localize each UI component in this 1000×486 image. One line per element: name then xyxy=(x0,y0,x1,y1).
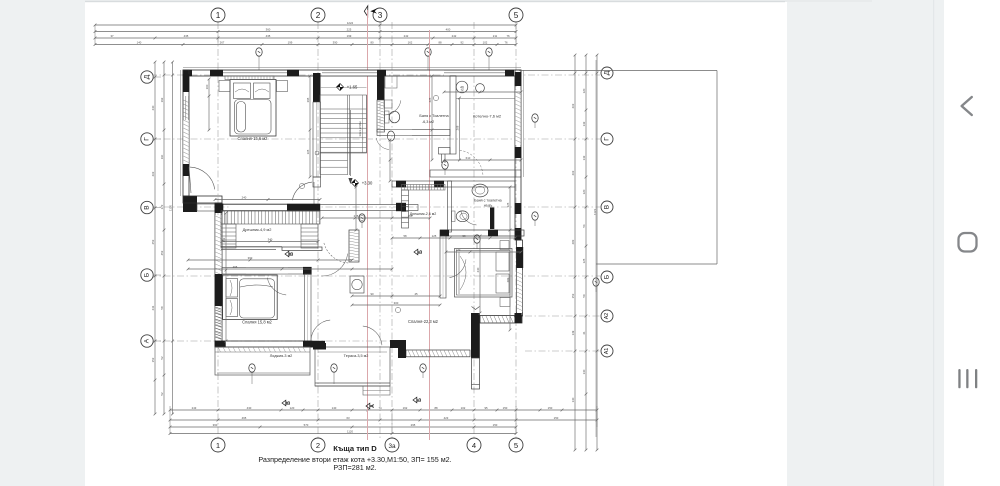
svg-text:А: А xyxy=(144,338,151,343)
svg-text:А: А xyxy=(370,404,376,408)
svg-text:435: 435 xyxy=(184,34,189,38)
svg-text:Спалня 15,8 м2: Спалня 15,8 м2 xyxy=(242,320,272,325)
svg-text:153: 153 xyxy=(571,293,575,298)
svg-text:А1: А1 xyxy=(604,348,610,355)
svg-text:Лоджия-3 м2: Лоджия-3 м2 xyxy=(270,354,293,358)
svg-text:143: 143 xyxy=(582,155,586,160)
svg-text:3а: 3а xyxy=(388,443,396,450)
svg-text:120: 120 xyxy=(582,88,586,93)
svg-text:150: 150 xyxy=(554,416,559,420)
svg-text:Д: Д xyxy=(144,74,151,79)
svg-text:Тераса-3,5 м2: Тераса-3,5 м2 xyxy=(344,354,369,358)
svg-text:162: 162 xyxy=(403,406,408,410)
svg-text:1120: 1120 xyxy=(168,205,172,211)
svg-text:1120: 1120 xyxy=(347,429,353,433)
svg-text:95: 95 xyxy=(484,406,488,410)
svg-text:Къща тип D: Къща тип D xyxy=(333,444,377,453)
svg-text:13х1,2/30м: 13х1,2/30м xyxy=(358,121,362,136)
svg-text:3: 3 xyxy=(378,11,383,20)
svg-text:430: 430 xyxy=(247,406,252,410)
svg-text:240: 240 xyxy=(242,195,247,199)
svg-text:72: 72 xyxy=(460,88,464,92)
svg-text:2: 2 xyxy=(316,11,321,20)
svg-text:130: 130 xyxy=(582,369,586,374)
svg-text:Г: Г xyxy=(144,137,151,141)
svg-text:211: 211 xyxy=(493,34,498,38)
svg-text:52: 52 xyxy=(160,356,164,360)
svg-text:125: 125 xyxy=(432,234,437,238)
svg-text:4: 4 xyxy=(472,441,476,450)
svg-text:105: 105 xyxy=(408,214,413,218)
svg-text:110: 110 xyxy=(160,154,164,159)
svg-text:Котелно-7,6 м2: Котелно-7,6 м2 xyxy=(473,114,502,119)
svg-text:45: 45 xyxy=(414,292,418,296)
svg-text:225: 225 xyxy=(428,97,432,102)
svg-text:268: 268 xyxy=(455,125,459,130)
svg-text:150: 150 xyxy=(493,423,498,427)
svg-text:283: 283 xyxy=(571,239,575,244)
svg-text:193: 193 xyxy=(160,97,164,102)
svg-text:+1.65: +1.65 xyxy=(347,85,358,90)
svg-text:172: 172 xyxy=(160,204,164,209)
svg-text:37: 37 xyxy=(110,34,114,38)
svg-text:Г: Г xyxy=(604,137,611,141)
svg-text:263: 263 xyxy=(571,170,575,175)
svg-text:140: 140 xyxy=(332,406,337,410)
svg-text:В: В xyxy=(604,204,611,209)
svg-text:59: 59 xyxy=(582,294,586,298)
svg-text:139: 139 xyxy=(571,330,575,335)
svg-text:88: 88 xyxy=(434,406,438,410)
svg-text:465: 465 xyxy=(242,416,247,420)
svg-text:В: В xyxy=(286,401,292,405)
svg-text:143: 143 xyxy=(582,121,586,126)
svg-text:1: 1 xyxy=(216,11,221,20)
svg-text:+3.30: +3.30 xyxy=(362,181,373,186)
svg-text:300: 300 xyxy=(394,301,399,305)
svg-text:150: 150 xyxy=(548,406,553,410)
svg-text:423: 423 xyxy=(444,416,449,420)
svg-text:Д: Д xyxy=(604,70,611,75)
svg-text:102: 102 xyxy=(461,406,466,410)
svg-text:5: 5 xyxy=(514,11,519,20)
svg-text:Дрешник-2,6 м2: Дрешник-2,6 м2 xyxy=(410,212,437,216)
svg-text:Б: Б xyxy=(144,273,151,277)
svg-text:100: 100 xyxy=(205,84,209,89)
svg-text:80: 80 xyxy=(370,40,374,44)
svg-text:610: 610 xyxy=(466,156,471,160)
svg-text:199: 199 xyxy=(347,34,352,38)
svg-text:263: 263 xyxy=(571,103,575,108)
svg-text:Б: Б xyxy=(418,250,424,254)
svg-text:170: 170 xyxy=(456,248,461,252)
svg-text:1224: 1224 xyxy=(347,21,354,25)
svg-text:Баня с тоалетна: Баня с тоалетна xyxy=(474,199,501,203)
svg-text:52: 52 xyxy=(160,392,164,396)
svg-text:88: 88 xyxy=(438,40,442,44)
svg-text:165: 165 xyxy=(306,149,310,154)
svg-text:130: 130 xyxy=(571,397,575,402)
svg-text:230: 230 xyxy=(476,267,480,272)
svg-text:253: 253 xyxy=(151,239,155,244)
svg-text:435: 435 xyxy=(266,34,271,38)
svg-text:Спалня-22,3 м2: Спалня-22,3 м2 xyxy=(408,319,439,324)
svg-text:267: 267 xyxy=(220,40,225,44)
svg-text:263: 263 xyxy=(151,171,155,176)
svg-text:76: 76 xyxy=(504,40,508,44)
svg-text:395: 395 xyxy=(306,97,310,102)
svg-text:360: 360 xyxy=(266,27,271,31)
svg-text:В: В xyxy=(289,252,295,256)
svg-text:390: 390 xyxy=(333,40,338,44)
svg-text:570: 570 xyxy=(304,423,309,427)
svg-text:340: 340 xyxy=(268,237,273,241)
svg-text:2: 2 xyxy=(316,441,320,450)
svg-text:58: 58 xyxy=(160,306,164,310)
svg-text:Баня с Тоалетна: Баня с Тоалетна xyxy=(419,114,449,118)
svg-text:1: 1 xyxy=(216,441,220,450)
svg-text:120: 120 xyxy=(582,189,586,194)
svg-text:Б: Б xyxy=(604,275,611,279)
svg-text:241: 241 xyxy=(151,305,155,310)
svg-text:360: 360 xyxy=(213,423,218,427)
svg-text:150: 150 xyxy=(503,406,508,410)
svg-text:на въ: на въ xyxy=(484,204,493,208)
svg-text:283: 283 xyxy=(506,277,510,282)
svg-text:199: 199 xyxy=(288,40,293,44)
svg-text:102: 102 xyxy=(483,40,488,44)
svg-text:263: 263 xyxy=(222,237,226,242)
svg-text:230: 230 xyxy=(151,105,155,110)
svg-text:295: 295 xyxy=(411,423,416,427)
svg-text:63: 63 xyxy=(346,416,350,420)
svg-text:92: 92 xyxy=(460,40,464,44)
svg-text:125: 125 xyxy=(506,202,510,207)
svg-text:5: 5 xyxy=(514,441,518,450)
svg-text:90: 90 xyxy=(370,292,374,296)
svg-text:242: 242 xyxy=(404,34,409,38)
svg-text:А2: А2 xyxy=(604,313,610,320)
svg-text:360: 360 xyxy=(248,256,253,260)
svg-text:41: 41 xyxy=(582,331,586,335)
svg-text:152: 152 xyxy=(151,357,155,362)
svg-text:120: 120 xyxy=(290,406,295,410)
svg-text:Дрешник-4,9 м2: Дрешник-4,9 м2 xyxy=(243,227,272,232)
svg-text:140: 140 xyxy=(137,40,142,44)
svg-text:76: 76 xyxy=(506,34,510,38)
svg-text:453: 453 xyxy=(160,250,164,255)
svg-text:225: 225 xyxy=(347,27,352,31)
svg-text:РЗП=281 м2.: РЗП=281 м2. xyxy=(333,463,376,472)
svg-text:162: 162 xyxy=(408,40,413,44)
svg-text:400: 400 xyxy=(446,27,451,31)
svg-text:56: 56 xyxy=(582,224,586,228)
svg-text:В: В xyxy=(144,205,151,210)
svg-text:465: 465 xyxy=(233,265,238,269)
svg-text:242: 242 xyxy=(452,34,457,38)
svg-text:125: 125 xyxy=(582,258,586,263)
svg-text:243: 243 xyxy=(192,406,197,410)
svg-text:59: 59 xyxy=(462,234,466,238)
svg-text:Спалня-15,6 м2: Спалня-15,6 м2 xyxy=(238,136,269,141)
svg-text:Б: Б xyxy=(417,398,423,402)
svg-text:74: 74 xyxy=(378,406,382,410)
svg-text:58: 58 xyxy=(403,234,407,238)
